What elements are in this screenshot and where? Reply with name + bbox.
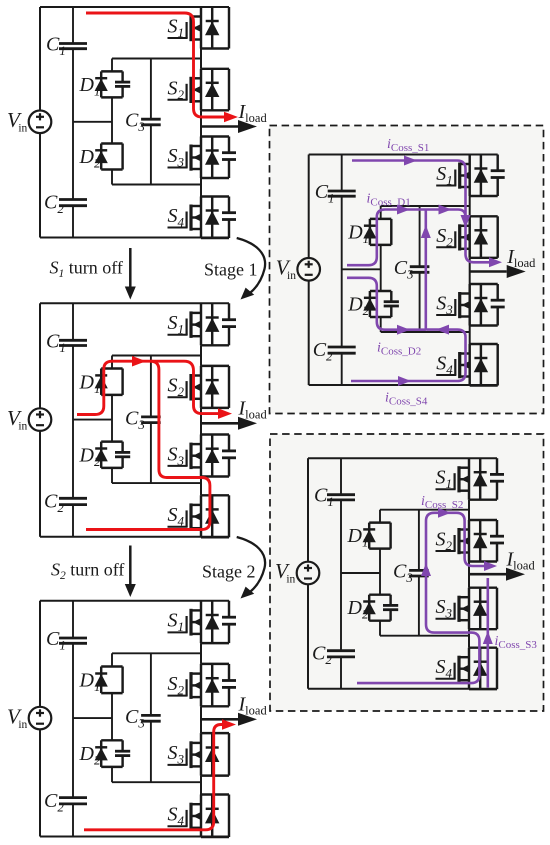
wire: switch column (after S2 off circuit) [200, 643, 202, 664]
wire: top rail (after S2 off circuit) [40, 600, 229, 602]
diode D2 with parallel capacitance (after S2 off circuit) [101, 739, 122, 741]
output capacitance Coss of S2 (stage 2 circuit) [496, 520, 498, 536]
wire: midpoint link C1C2-D1D2 (stage 1 circuit) [342, 268, 381, 270]
MOSFET S4 (stage 1 circuit) [470, 343, 498, 345]
purple path i_Coss_S1 (stage 1 circuit) [352, 161, 489, 263]
wire: bottom rail (initial circuit) [40, 237, 229, 239]
load current arrow Iload (initial circuit) [201, 125, 238, 128]
MOSFET S4 (initial circuit) [201, 195, 229, 197]
body diode of S2 (after S2 off circuit) [211, 664, 213, 706]
curved arrow into stage 1 [237, 238, 265, 293]
output capacitance Coss of S3 (stage 1 circuit) [496, 284, 498, 300]
MOSFET S1 (after S1 off circuit) [201, 344, 229, 346]
diode D1 with parallel capacitance (after S1 off circuit) [101, 367, 122, 369]
red current path through C3 and S4 (after S1 off circuit) [86, 361, 210, 529]
wire: midpoint link C1C2-D1D2 (stage 2 circuit) [341, 572, 380, 574]
diode D1 with parallel capacitance (stage 2 circuit) [369, 521, 390, 523]
MOSFET S3 (initial circuit) [201, 135, 229, 137]
body diode of S1 (stage 2 circuit) [479, 458, 481, 500]
wire: midpoint link C1C2-D1D2 (after S1 off circuit) [73, 419, 112, 421]
output capacitance Coss of S1 (stage 1 circuit) [496, 155, 498, 171]
wire: switch column (initial circuit) [200, 49, 202, 69]
diode D2 with parallel capacitance (stage 1 circuit) [370, 290, 391, 292]
MOSFET S1 (stage 1 circuit) [470, 195, 498, 197]
wire: D1-D2 column (initial circuit) [111, 59, 113, 72]
wire: midpoint link C1C2-D1D2 (initial circuit) [73, 121, 112, 123]
svg-text:Stage 2: Stage 2 [202, 562, 256, 582]
voltage source Vin (stage 1 circuit) [297, 258, 320, 281]
MOSFET S4 (after S1 off circuit) [201, 494, 229, 496]
MOSFET S2 (after S2 off circuit) [201, 663, 229, 665]
body diode of S3 (initial circuit) [211, 137, 213, 179]
diode D1 with parallel capacitance (after S2 off circuit) [101, 665, 122, 667]
wire: D1-D2 column (stage 2 circuit) [379, 510, 381, 523]
capacitor C1 (after S1 off circuit) [59, 339, 87, 342]
capacitor C1 (stage 1 circuit) [328, 190, 356, 193]
load current arrow Iload (stage 2 circuit) [469, 573, 506, 576]
wire: top rail (stage 2 circuit) [308, 457, 497, 459]
wire: C1-C2 branch (after S1 off circuit) [72, 303, 74, 340]
wire: S1-S2 junction rail (after S1 off circuit) [112, 355, 201, 357]
body diode of S3 (stage 1 circuit) [480, 284, 482, 326]
capacitor C2 (after S1 off circuit) [59, 497, 87, 500]
MOSFET S3 (stage 1 circuit) [470, 283, 498, 285]
MOSFET S3 (after S1 off circuit) [201, 433, 229, 435]
wire: switch column (stage 1 circuit) [469, 196, 471, 216]
body diode of S4 (after S1 off circuit) [211, 495, 213, 537]
MOSFET S2 (initial circuit) [201, 68, 229, 70]
body diode of S4 (after S2 off circuit) [211, 795, 213, 838]
body diode of S2 (stage 1 circuit) [480, 216, 482, 257]
wire: S3-S4 junction rail (after S1 off circuit) [112, 482, 201, 484]
wire: S1-S2 junction rail (initial circuit) [112, 58, 201, 60]
wire: S3-S4 junction rail (stage 2 circuit) [380, 635, 469, 637]
MOSFET S3 (stage 2 circuit) [469, 586, 497, 588]
wire: C1-C2 branch (after S2 off circuit) [72, 601, 74, 638]
wire: C1-C2 branch (stage 1 circuit) [341, 155, 343, 192]
voltage source Vin (after S1 off circuit) [29, 408, 52, 431]
capacitor C2 (initial circuit) [59, 198, 87, 201]
wire: S1-S2 junction rail (after S2 off circuit) [112, 652, 201, 654]
capacitor C2 (stage 2 circuit) [327, 649, 355, 652]
capacitor C1 (initial circuit) [59, 42, 87, 45]
load current arrow Iload (after S2 off circuit) [201, 718, 238, 721]
body diode of S1 (initial circuit) [211, 7, 213, 49]
capacitor C2 (stage 1 circuit) [328, 346, 356, 349]
load current arrow Iload (after S1 off circuit) [201, 422, 238, 425]
load current arrow Iload (stage 1 circuit) [470, 270, 507, 273]
wire: S3-S4 junction rail (stage 1 circuit) [381, 331, 470, 333]
wire: top rail (after S1 off circuit) [40, 302, 229, 304]
voltage source Vin (initial circuit) [29, 111, 52, 134]
red load current path (initial circuit) [86, 13, 225, 117]
flying capacitor C3 (after S2 off circuit) [150, 653, 152, 715]
purple path i_Coss_S4 (stage 1 circuit) [351, 330, 466, 381]
body diode of S2 (stage 2 circuit) [479, 520, 481, 562]
flying capacitor C3 (stage 1 circuit) [419, 206, 421, 267]
wire: S1-S2 junction rail (stage 1 circuit) [381, 205, 470, 207]
transition arrow S1 turn off [129, 248, 132, 287]
body diode of S3 (after S1 off circuit) [211, 435, 213, 477]
output capacitance Coss of S1 (after S2 off circuit) [228, 601, 230, 618]
wire: top rail (stage 1 circuit) [309, 154, 498, 156]
wire: left rail (after S2 off circuit) [39, 601, 41, 707]
wire: C1-C2 branch (initial circuit) [72, 7, 74, 44]
body diode of S1 (after S1 off circuit) [211, 303, 213, 345]
wire: S1-S2 junction rail (stage 2 circuit) [380, 509, 469, 511]
body diode of S3 (stage 2 circuit) [479, 588, 481, 630]
red current path through S4 and S3 body diodes (after S2 off circuit) [84, 725, 223, 830]
wire: midpoint link C1C2-D1D2 (after S2 off circuit) [73, 717, 112, 719]
wire: top rail (initial circuit) [40, 6, 229, 8]
wire: D1-D2 column (after S2 off circuit) [111, 653, 113, 666]
wire: S3-S4 junction rail (initial circuit) [112, 184, 201, 186]
output capacitance Coss of S2 (after S2 off circuit) [228, 664, 230, 681]
MOSFET S2 (stage 2 circuit) [469, 519, 497, 521]
red current path through D1 and S2 (after S1 off circuit) [77, 361, 218, 414]
MOSFET S3 (after S2 off circuit) [201, 732, 229, 734]
flying capacitor C3 (after S1 off circuit) [150, 356, 152, 417]
output capacitance Coss of S4 (initial circuit) [228, 197, 230, 213]
wire: D1-D2 column (stage 1 circuit) [380, 206, 382, 219]
stage 1 dashed box [270, 126, 544, 414]
purple path i_Coss_D2 (stage 1 circuit) [347, 278, 426, 330]
capacitor C2 (after S2 off circuit) [59, 796, 87, 799]
diode D2 with parallel capacitance (stage 2 circuit) [369, 593, 390, 595]
curved arrow into stage 2 [237, 537, 265, 592]
capacitor C1 (after S2 off circuit) [59, 637, 87, 640]
wire: bottom rail (stage 1 circuit) [309, 384, 498, 386]
output capacitance Coss of S1 (after S1 off circuit) [228, 303, 230, 319]
wire: switch column (after S1 off circuit) [200, 345, 202, 366]
voltage source Vin (after S2 off circuit) [29, 707, 52, 730]
wire: left rail (stage 1 circuit) [308, 155, 310, 259]
output capacitance Coss of S3 (after S1 off circuit) [228, 435, 230, 451]
body diode of S4 (stage 1 circuit) [480, 344, 482, 386]
svg-text:Stage 1: Stage 1 [204, 260, 258, 280]
body diode of S1 (stage 1 circuit) [480, 155, 482, 197]
wire: switch column (stage 2 circuit) [468, 500, 470, 520]
MOSFET S4 (after S2 off circuit) [201, 793, 229, 795]
wire: D1-D2 column (after S1 off circuit) [111, 356, 113, 369]
wire: bottom rail (after S1 off circuit) [40, 536, 229, 538]
wire: bottom rail (stage 2 circuit) [308, 688, 497, 690]
voltage source Vin (stage 2 circuit) [297, 562, 320, 585]
purple path i_Coss_S3 (stage 2 circuit) [486, 578, 489, 688]
purple path i_Coss_D1 (stage 1 circuit) [347, 210, 466, 266]
output capacitance Coss of S3 (initial circuit) [228, 137, 230, 153]
flying capacitor C3 (initial circuit) [150, 59, 152, 120]
MOSFET S1 (after S2 off circuit) [201, 642, 229, 644]
MOSFET S1 (initial circuit) [201, 47, 229, 49]
flying capacitor C3 (stage 2 circuit) [418, 510, 420, 571]
diode D2 with parallel capacitance (initial circuit) [101, 142, 122, 144]
transition arrow S2 turn off [129, 546, 132, 585]
stage 2 dashed box [270, 434, 544, 711]
diode D2 with parallel capacitance (after S1 off circuit) [101, 440, 122, 442]
wire: left rail (initial circuit) [39, 7, 41, 111]
body diode of S2 (after S1 off circuit) [211, 366, 213, 408]
wire: S3-S4 junction rail (after S2 off circuit) [112, 781, 201, 783]
MOSFET S1 (stage 2 circuit) [469, 498, 497, 500]
diode D1 with parallel capacitance (stage 1 circuit) [370, 218, 391, 220]
wire: C1-C2 branch (stage 2 circuit) [340, 458, 342, 495]
MOSFET S2 (stage 1 circuit) [470, 215, 498, 217]
wire: left rail (stage 2 circuit) [307, 458, 309, 562]
body diode of S3 (after S2 off circuit) [211, 733, 213, 776]
body diode of S4 (stage 2 circuit) [479, 648, 481, 690]
body diode of S2 (initial circuit) [211, 69, 213, 111]
MOSFET S4 (stage 2 circuit) [469, 646, 497, 648]
output capacitance Coss of S1 (stage 2 circuit) [496, 458, 498, 474]
wire: left rail (after S1 off circuit) [39, 303, 41, 408]
MOSFET S2 (after S1 off circuit) [201, 365, 229, 367]
body diode of S1 (after S2 off circuit) [211, 601, 213, 643]
diode D1 with parallel capacitance (initial circuit) [101, 70, 122, 72]
capacitor C1 (stage 2 circuit) [327, 493, 355, 496]
body diode of S4 (initial circuit) [211, 197, 213, 239]
wire: bottom rail (after S2 off circuit) [40, 836, 229, 838]
purple path i_Coss_S2 (stage 2 circuit) [357, 513, 484, 683]
purple riser along C3 (stage 1 circuit) [424, 210, 427, 331]
